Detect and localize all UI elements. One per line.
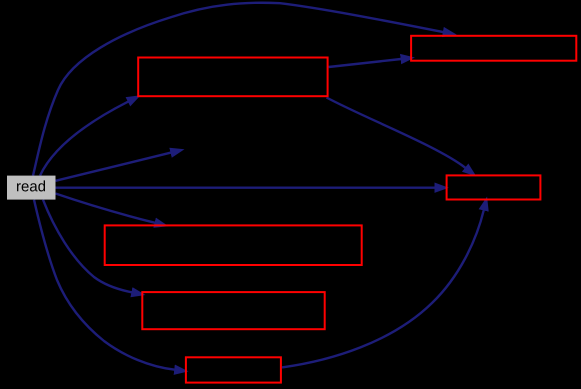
edge F->C [282, 210, 484, 367]
edge read->C (horizontal) [56, 186, 435, 188]
edge read->F [34, 200, 175, 370]
node box F (bottom, red) [186, 357, 281, 382]
edge read->D [56, 194, 156, 223]
node read (grey current node) [7, 176, 56, 200]
node box B (top right, red) [411, 36, 576, 61]
node box A (top middle, red) [138, 58, 327, 97]
edge read->B (long top curve) [33, 3, 443, 176]
node box E (lower, red) [142, 292, 324, 329]
edge read->E [43, 200, 132, 293]
edge A->C [327, 98, 466, 168]
node box D (middle, red) [105, 225, 362, 265]
edge read->A [40, 102, 128, 176]
node box C (right middle, red) [447, 175, 541, 199]
edge A->B [329, 59, 402, 67]
edge read->invisible node [56, 153, 172, 181]
